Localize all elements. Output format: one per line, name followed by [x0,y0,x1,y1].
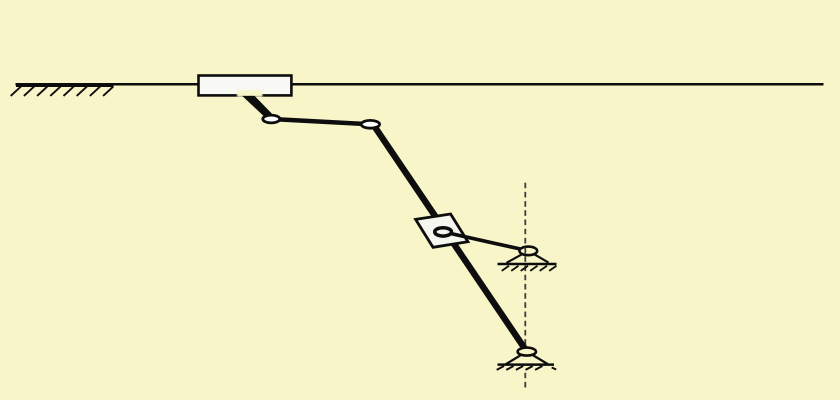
yellow patch over slider bottom border [237,90,263,96]
upper fixed pivot: hatching [502,266,557,271]
ground baseline at left of rail [16,85,114,87]
pin A (revolute joint) [263,115,280,123]
ground hatching top-left [11,86,114,96]
link: block pin to upper fixed pivot [443,232,529,251]
sliding block on coupler [416,214,468,247]
dashed vertical center line through pivots [524,183,526,345]
slider block on rail [199,76,292,96]
upper fixed pivot: triangle legs [507,251,529,263]
pin B (revolute joint) [361,120,379,128]
link: pin A to pin B [271,119,370,124]
bottom fixed pivot: pin [518,348,536,356]
bottom fixed pivot: ground line [498,363,555,366]
upper fixed pivot: pin [519,247,537,256]
wire: fixed horizontal guide rail [16,83,824,86]
bottom fixed pivot: triangle legs [506,352,527,365]
dash segment over upper pivot pin [524,248,526,254]
bottom fixed pivot: hatching [497,366,557,370]
pin C inside sliding block [435,228,452,236]
upper fixed pivot: ground line [498,263,557,266]
link: long thick coupler from pin B to bottom pivot [375,128,527,352]
link: slider to pin A (tapered) [242,96,275,122]
